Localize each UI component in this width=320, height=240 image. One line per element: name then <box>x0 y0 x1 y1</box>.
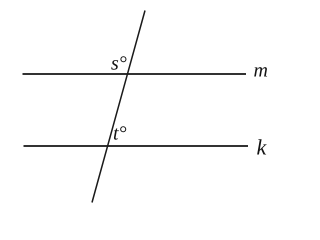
label s° (angle at top intersection) <box>111 56 126 69</box>
label k (bottom line name) <box>257 139 266 154</box>
transversal line <box>92 11 145 203</box>
line m (top horizontal) <box>23 73 247 75</box>
label t° (angle at bottom intersection) <box>114 126 126 139</box>
line k (bottom horizontal) <box>24 145 249 147</box>
label m (top line name) <box>254 67 267 76</box>
